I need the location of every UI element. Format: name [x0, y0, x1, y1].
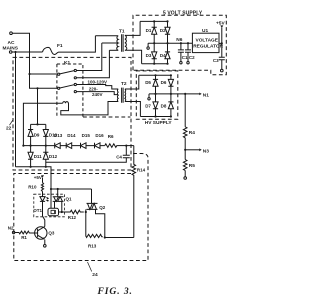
resistor R6	[105, 144, 118, 148]
svg-text:R12: R12	[68, 215, 77, 220]
node N3	[184, 149, 186, 151]
Q3 label	[48, 231, 55, 236]
svg-text:D11: D11	[34, 154, 43, 159]
wire bridge bottom rail	[142, 63, 168, 65]
wire rail junction down into diac box	[50, 189, 52, 208]
svg-text:N6: N6	[176, 37, 182, 43]
svg-text:FIG. 3.: FIG. 3.	[97, 286, 133, 297]
AC MAINS label	[3, 40, 19, 52]
wire N3 to R5	[184, 150, 186, 160]
svg-text:REGULATOR: REGULATOR	[193, 44, 223, 50]
svg-text:+5V: +5V	[216, 20, 225, 26]
diode D12	[43, 146, 48, 167]
svg-text:OT1: OT1	[33, 208, 42, 213]
F1 label	[57, 43, 63, 49]
svg-text:R6: R6	[108, 134, 114, 139]
svg-text:C4: C4	[116, 155, 122, 160]
svg-text:T2: T2	[121, 81, 127, 87]
wire lower terminal to fuse	[12, 51, 43, 53]
wire bridge top rail	[140, 20, 167, 22]
wire T1 secondary bottom to bridge rail	[125, 50, 142, 63]
K1 switch 2 throw B contact	[74, 91, 76, 93]
wire N1 node down to R4	[184, 94, 186, 127]
wire Q3 collector to opto LED	[43, 216, 45, 227]
svg-text:N2: N2	[8, 225, 14, 230]
svg-text:Q1: Q1	[66, 197, 73, 202]
HV center-tap stub terminal	[148, 94, 150, 100]
svg-text:D8: D8	[161, 103, 167, 108]
opto LED of OT1	[40, 197, 45, 216]
capacitor C3	[219, 57, 225, 72]
5 VOLT SUPPLY title	[163, 11, 203, 17]
OT1 dashed enclosure	[34, 194, 65, 217]
transformer T1	[95, 34, 126, 52]
5 volt supply box	[133, 15, 226, 74]
wire R4 to node N3	[184, 138, 186, 150]
diode D6	[168, 75, 173, 94]
svg-text:HV SUPPLY: HV SUPPLY	[145, 120, 173, 126]
diode D3	[152, 43, 157, 64]
AC mains upper terminal	[10, 32, 13, 35]
wire AC line down left side	[15, 52, 17, 167]
K1 switch 1 throw A contact	[74, 69, 76, 71]
svg-text:C1: C1	[182, 55, 188, 60]
diode D15	[81, 143, 95, 149]
wire T2 secondary bottom to HV bridge	[125, 102, 140, 117]
resistor R12	[62, 210, 84, 214]
K1 switch 2 arm	[60, 85, 74, 88]
K1 switch 2 throw A contact	[74, 83, 76, 85]
wire bridge mid rail to regulator (node N6)	[148, 42, 192, 44]
svg-text:N3: N3	[203, 148, 209, 154]
capacitor C1	[178, 43, 184, 64]
svg-text:K1: K1	[64, 60, 70, 66]
svg-text:D3: D3	[146, 53, 152, 58]
K1 switch 1 wiper wire	[30, 73, 58, 75]
svg-text:24: 24	[92, 272, 98, 278]
capacitor C2	[185, 43, 191, 64]
voltage regulator U1	[192, 33, 219, 52]
wire T2 secondary top to HV bridge	[125, 75, 139, 89]
diode D1	[152, 21, 157, 43]
svg-text:100-120V: 100-120V	[88, 80, 108, 85]
resistor R14	[132, 146, 136, 238]
svg-text:D16: D16	[95, 133, 104, 138]
wire throw A to T2 primary top	[76, 85, 118, 90]
transformer T2	[117, 88, 125, 103]
label 220-240V	[89, 87, 103, 98]
svg-text:240V: 240V	[92, 92, 103, 97]
diac network box	[48, 208, 59, 216]
K1 switch 2 wiper wire	[30, 74, 58, 88]
wire N2 to R1	[15, 232, 19, 234]
OT1 label	[33, 208, 42, 213]
diode D8	[168, 94, 173, 117]
diode D2	[165, 21, 170, 43]
leader for 24	[88, 262, 92, 272]
svg-text:D1: D1	[146, 28, 152, 33]
+5V terminal above R10	[34, 175, 44, 180]
FIG. 3. caption	[97, 286, 133, 297]
capacitor C4	[46, 146, 130, 163]
opto light arrows	[46, 197, 49, 201]
wire T1 secondary top to bridge rail	[125, 21, 140, 35]
lower rectifier split from wiper line	[31, 88, 46, 129]
leader for 22	[10, 119, 14, 125]
K1 label	[64, 60, 70, 66]
svg-text:R4: R4	[189, 130, 195, 136]
triac Q2	[87, 189, 98, 209]
wire throw A to T1 tap	[76, 43, 101, 71]
svg-text:T1: T1	[119, 28, 125, 34]
junction at left AC line	[14, 51, 16, 53]
wire T2 primary bottom return with relay coil K1	[61, 102, 118, 115]
box 24 dashed border	[14, 154, 148, 261]
diode D16	[95, 143, 105, 149]
wire diac box right to R12 node	[59, 211, 62, 213]
svg-text:220-: 220-	[89, 87, 99, 92]
diode D11	[28, 146, 33, 167]
resistor R4	[183, 127, 187, 138]
svg-text:D13: D13	[54, 133, 63, 138]
wire R6 to C4 and R14	[118, 145, 134, 147]
+5V supply terminal	[216, 20, 225, 28]
diode D9	[28, 130, 33, 146]
HV SUPPLY title	[145, 120, 173, 126]
svg-text:D2: D2	[160, 28, 166, 33]
K1 switch 1 throw B contact	[74, 77, 76, 79]
wire R10 to opto LED	[42, 192, 44, 197]
bridge center-tap stub terminal	[147, 43, 149, 49]
wire diac box to phototriac bottom	[54, 201, 56, 208]
Q3 emitter ground terminal	[44, 240, 47, 248]
relay K1 coil	[63, 102, 69, 104]
K1 switch 1 arm	[60, 71, 74, 74]
diode D10	[43, 130, 48, 146]
svg-text:F1: F1	[57, 43, 63, 49]
AC mains lower terminal	[9, 51, 12, 54]
svg-text:D7: D7	[145, 103, 151, 108]
phototriac Q1	[53, 189, 64, 212]
T2 label	[121, 81, 127, 87]
wire R12 to triac gate node	[85, 211, 87, 213]
diode D7	[153, 94, 158, 117]
svg-text:C3: C3	[213, 58, 219, 63]
fuse F1	[43, 47, 59, 54]
svg-text:R13: R13	[88, 243, 97, 248]
HV supply box	[136, 71, 178, 119]
svg-text:N1: N1	[203, 92, 209, 98]
diode D14	[66, 143, 80, 149]
svg-text:C2: C2	[189, 55, 195, 60]
svg-text:R1: R1	[21, 235, 27, 240]
Q1 label	[66, 197, 73, 202]
node 24 label	[92, 272, 98, 278]
svg-text:D12: D12	[49, 154, 58, 159]
node 22 label	[6, 126, 12, 132]
svg-text:+5V: +5V	[34, 175, 42, 180]
svg-text:Q3: Q3	[48, 231, 55, 236]
T1 label	[119, 28, 125, 34]
svg-text:R14: R14	[137, 167, 146, 172]
wire lower bridge bottom rail	[16, 167, 52, 189]
svg-text:Q2: Q2	[99, 205, 106, 210]
wire HV bridge mid rail to node N1	[149, 93, 200, 95]
wire fuse to T1 primary top	[59, 36, 96, 52]
transistor Q3	[35, 227, 47, 240]
svg-text:D15: D15	[82, 133, 91, 138]
svg-text:5 VOLT SUPPLY: 5 VOLT SUPPLY	[163, 11, 203, 17]
svg-text:R5: R5	[189, 163, 195, 169]
K1 switch 1 wiper contact	[58, 73, 60, 75]
node N6 label	[176, 37, 182, 43]
wire HV bridge bottom rail	[140, 116, 171, 118]
relay K1 box	[57, 64, 83, 117]
node N2 terminal	[12, 231, 14, 233]
svg-text:D6: D6	[161, 80, 167, 85]
wire bottom rail into lower box to phototriac rail	[51, 188, 92, 190]
wire regulator output to +5V rail	[219, 28, 222, 58]
diode D5	[153, 75, 158, 94]
label 100-120V	[88, 80, 108, 85]
wire R1 to Q3 base	[30, 232, 38, 234]
wire coil to lower bridge	[23, 103, 62, 145]
resistor R10	[41, 183, 43, 192]
resistor R1	[19, 231, 30, 234]
svg-text:D4: D4	[160, 53, 166, 58]
wire throw B to T1 bottom (100-120V)	[76, 50, 109, 78]
wire gate node down to R13	[85, 212, 87, 237]
svg-text:D9: D9	[34, 132, 40, 137]
svg-text:D14: D14	[67, 133, 76, 138]
svg-text:AC: AC	[8, 40, 15, 46]
K1 switch 2 wiper contact	[58, 87, 60, 89]
node N1	[199, 92, 209, 98]
diode D4	[165, 43, 170, 64]
wire from upper terminal to K1 wipers	[12, 33, 29, 74]
svg-text:D5: D5	[145, 80, 151, 85]
svg-text:VOLTAGE: VOLTAGE	[196, 38, 219, 44]
resistor R5	[183, 160, 187, 171]
Q2 label	[99, 205, 106, 210]
diode D13	[54, 143, 67, 149]
K1 lower dashed line	[83, 116, 131, 118]
R5 bottom terminal	[184, 171, 187, 180]
wire triac MT1 down to R13 node	[96, 209, 105, 237]
resistor R13	[86, 234, 103, 237]
wire throw B to T2 tap (220-240V)	[76, 92, 118, 95]
R13 right node to R14 bottom	[104, 236, 106, 238]
svg-text:R10: R10	[28, 185, 37, 190]
box 22 dashed border	[13, 57, 131, 170]
wire HV bridge top rail	[139, 74, 171, 76]
svg-text:22: 22	[6, 126, 12, 132]
wire +5V to R10	[42, 178, 44, 183]
svg-text:U1: U1	[202, 28, 208, 34]
wire lower bridge mid rail	[23, 145, 53, 147]
